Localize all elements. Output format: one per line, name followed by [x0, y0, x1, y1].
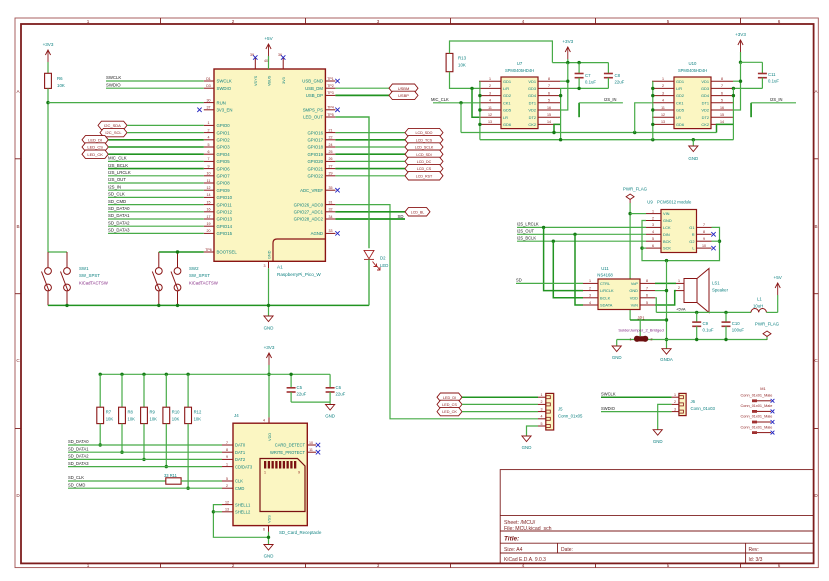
svg-text:11: 11: [488, 106, 492, 110]
MCU left pins: [204, 77, 238, 255]
svg-text:GD3: GD3: [701, 86, 709, 91]
wire: [472, 88, 479, 117]
capacitor C10: [725, 312, 727, 322]
wire: [335, 87, 389, 89]
svg-text:5: 5: [721, 99, 723, 103]
wire: [108, 211, 204, 213]
svg-text:GND: GND: [264, 554, 274, 559]
wire: [630, 213, 646, 215]
resistor R10: [165, 374, 167, 407]
junction: [651, 94, 654, 97]
svg-text:Conn_01x01_Male: Conn_01x01_Male: [741, 425, 773, 429]
svg-text:GND: GND: [522, 445, 532, 450]
svg-text:GPIO2: GPIO2: [217, 138, 231, 143]
svg-text:6: 6: [778, 19, 781, 24]
svg-text:USB_DP: USB_DP: [306, 93, 323, 98]
svg-text:1: 1: [589, 279, 591, 283]
svg-text:GD1: GD1: [503, 79, 511, 84]
svg-text:LCD_CS: LCD_CS: [417, 167, 432, 171]
svg-text:I2S_LRCLK: I2S_LRCLK: [108, 170, 131, 175]
svg-text:4: 4: [589, 301, 591, 305]
power +3V3 mic1: [565, 47, 570, 59]
capacitor C5: [290, 374, 292, 388]
svg-text:SD_DATA0: SD_DATA0: [68, 439, 89, 444]
svg-text:3: 3: [489, 91, 491, 95]
junction: [665, 318, 668, 321]
junction: [176, 250, 179, 253]
svg-text:1: 1: [87, 19, 90, 24]
svg-text:GPIO18: GPIO18: [307, 145, 323, 150]
svg-text:1: 1: [87, 563, 90, 568]
wire MCU ground: [268, 268, 270, 316]
svg-text:Title:: Title:: [504, 536, 519, 543]
svg-text:SD_CLK: SD_CLK: [68, 475, 84, 480]
wire: [47, 88, 49, 252]
svg-text:GPIO26_ADC0: GPIO26_ADC0: [294, 202, 324, 207]
svg-text:C9: C9: [703, 321, 709, 326]
wire shell ground: [213, 505, 268, 538]
svg-text:GPIO16: GPIO16: [307, 130, 323, 135]
svg-text:10: 10: [702, 244, 706, 248]
svg-text:2: 2: [678, 286, 680, 290]
svg-text:Id: 3/3: Id: 3/3: [749, 557, 763, 563]
svg-text:8: 8: [721, 77, 723, 81]
MCU bottom pin GND: [268, 261, 270, 268]
hier label LCD_SDI: [405, 150, 443, 158]
svg-text:L/RCLK: L/RCLK: [600, 288, 614, 293]
junction: [212, 510, 215, 513]
solder jumper JP1: [634, 336, 648, 342]
hier label LCD_CS: [405, 164, 443, 172]
svg-text:LCD_TCS: LCD_TCS: [416, 138, 433, 142]
svg-text:GD6: GD6: [676, 122, 684, 127]
svg-text:SD_DATA3: SD_DATA3: [108, 228, 130, 233]
svg-text:GPIO4: GPIO4: [217, 152, 231, 157]
svg-text:11: 11: [309, 448, 313, 452]
wire GPIO26 to J5 pin4: [335, 205, 538, 419]
svg-text:9: 9: [298, 471, 300, 475]
junction: [120, 451, 123, 454]
svg-text:ADC_VREF: ADC_VREF: [300, 188, 323, 193]
svg-text:2: 2: [232, 19, 235, 24]
svg-text:PCM5012 module: PCM5012 module: [657, 200, 692, 205]
svg-text:2: 2: [651, 338, 653, 342]
svg-text:C11: C11: [768, 72, 776, 77]
svg-text:GND: GND: [629, 288, 638, 293]
svg-text:LED_CS: LED_CS: [87, 145, 103, 150]
switch SW1: [42, 252, 71, 305]
wire: [335, 175, 405, 177]
svg-text:DIN: DIN: [663, 232, 670, 237]
svg-text:0.1uF: 0.1uF: [768, 79, 779, 84]
svg-text:DAT1: DAT1: [235, 450, 246, 455]
svg-text:1: 1: [208, 121, 210, 125]
wire MIC_CLK drop: [460, 103, 462, 133]
svg-text:9: 9: [208, 164, 210, 168]
svg-text:12: 12: [207, 186, 211, 190]
junction: [165, 373, 168, 376]
svg-text:J5: J5: [558, 407, 563, 412]
svg-text:C10: C10: [732, 321, 740, 326]
svg-text:6: 6: [263, 528, 265, 532]
wire mic ground bus: [480, 139, 734, 141]
svg-text:VD1: VD1: [528, 79, 536, 84]
wire: [601, 396, 672, 398]
no-connect male pin: [771, 431, 775, 435]
wire LRCLK drop: [544, 227, 583, 290]
svg-text:Conn_01x01_Male: Conn_01x01_Male: [741, 394, 773, 398]
svg-text:LR: LR: [676, 115, 681, 120]
svg-text:2: 2: [674, 400, 676, 404]
connector J4 SD_Card_Receptacle: [233, 423, 307, 525]
wire: [108, 153, 204, 155]
svg-text:GD2: GD2: [676, 93, 684, 98]
wire DT tie U10: [750, 103, 752, 117]
wire VoN to speaker: [655, 291, 676, 305]
wire: [335, 160, 405, 162]
svg-text:22uF: 22uF: [336, 392, 346, 397]
svg-text:17: 17: [207, 215, 211, 219]
junction: [542, 226, 545, 229]
wire ground rail under switches: [48, 304, 369, 306]
wire: [335, 139, 405, 141]
svg-text:CK2: CK2: [701, 122, 709, 127]
wire GNDA vertical: [666, 261, 668, 349]
svg-text:GPIO15: GPIO15: [217, 231, 233, 236]
svg-text:VD2: VD2: [701, 108, 709, 113]
wire GD3 GD4 ground drop: [560, 88, 562, 139]
svg-text:26: 26: [329, 157, 333, 161]
svg-text:PWR_FLAG: PWR_FLAG: [623, 187, 648, 192]
wire: [108, 189, 204, 191]
svg-text:KiCadTACTSW: KiCadTACTSW: [79, 280, 108, 285]
hier label LCD_BL: [405, 208, 430, 216]
no-connect 3V3: [281, 55, 285, 59]
no-connect 3V3_EN: [197, 108, 201, 112]
junction: [577, 87, 580, 90]
wire: [268, 56, 270, 69]
svg-text:LCD_DC: LCD_DC: [417, 160, 432, 164]
svg-text:32: 32: [329, 208, 333, 212]
svg-text:8: 8: [703, 230, 705, 234]
MCU A1 RaspberryPi_Pico_W: [214, 69, 325, 261]
no-connect AGND: [335, 231, 339, 235]
svg-text:LCD_SDO: LCD_SDO: [416, 131, 433, 135]
SD card drawing: [260, 459, 305, 512]
svg-text:SDATA: SDATA: [600, 303, 613, 308]
svg-text:13: 13: [661, 120, 665, 124]
wire GD3 GD4 ground drop U10: [732, 88, 734, 139]
svg-text:21: 21: [329, 128, 333, 132]
svg-text:4: 4: [208, 136, 210, 140]
wire: [108, 204, 204, 206]
svg-text:Conn_01x03: Conn_01x03: [691, 406, 716, 411]
wire CK1 U10: [635, 103, 652, 133]
wire: [181, 480, 222, 482]
wire: [462, 411, 538, 413]
wire: [48, 102, 204, 104]
svg-text:SWDIO: SWDIO: [217, 86, 232, 91]
junction: [566, 80, 569, 83]
svg-text:L/R: L/R: [676, 86, 682, 91]
svg-text:1: 1: [630, 338, 632, 342]
wire: [108, 218, 204, 220]
wire: [567, 59, 569, 63]
svg-text:16: 16: [547, 106, 551, 110]
junction: [478, 123, 481, 126]
svg-text:+5VA: +5VA: [676, 307, 686, 312]
svg-text:5: 5: [667, 19, 670, 24]
svg-text:SHELL2: SHELL2: [235, 510, 251, 515]
svg-text:Date:: Date:: [561, 547, 573, 553]
wire: [108, 139, 204, 141]
svg-text:8: 8: [226, 448, 228, 452]
svg-text:I2S_IN: I2S_IN: [108, 184, 121, 189]
svg-text:D1: D1: [206, 77, 211, 81]
wire: [213, 511, 222, 513]
MCU top pins VSYS VBUS 3V3: [250, 53, 286, 86]
wire: [68, 480, 166, 482]
svg-text:0.1uF: 0.1uF: [585, 80, 596, 85]
wire: [517, 226, 646, 228]
MCU right pins: [294, 77, 336, 236]
wire cap ground row: [560, 87, 608, 89]
svg-text:I2S_BCLK: I2S_BCLK: [517, 235, 536, 240]
svg-text:C7: C7: [585, 73, 591, 78]
svg-text:JP1: JP1: [637, 316, 645, 321]
svg-text:LED_DI: LED_DI: [88, 137, 102, 142]
wire: [733, 87, 762, 89]
svg-text:I2S_IN: I2S_IN: [770, 97, 783, 102]
svg-text:4: 4: [662, 99, 664, 103]
svg-text:4: 4: [541, 415, 543, 419]
svg-text:L1: L1: [757, 297, 762, 302]
svg-text:10K: 10K: [172, 417, 180, 422]
svg-text:B: B: [16, 224, 19, 229]
svg-text:SW_SPST: SW_SPST: [189, 273, 210, 278]
junction: [695, 311, 698, 314]
svg-text:5: 5: [226, 477, 228, 481]
capacitor C11: [761, 62, 763, 73]
svg-text:40: 40: [264, 59, 268, 63]
hier label LCD_DC: [405, 157, 443, 165]
wire: [108, 168, 204, 170]
svg-text:GPIO8: GPIO8: [217, 181, 231, 186]
switch SW2: [152, 252, 181, 305]
junction: [651, 108, 654, 111]
svg-text:34: 34: [329, 215, 333, 219]
svg-text:A1: A1: [277, 264, 283, 269]
capacitor C6: [329, 374, 331, 388]
wire DT1 DT2 tie: [578, 103, 580, 117]
wire: [629, 203, 631, 320]
svg-text:Conn_01x05: Conn_01x05: [558, 414, 583, 419]
svg-text:3: 3: [541, 407, 543, 411]
junction: [478, 94, 481, 97]
junction: [739, 80, 742, 83]
wire: [108, 225, 204, 227]
svg-text:C6: C6: [336, 385, 342, 390]
svg-text:22uF: 22uF: [297, 392, 307, 397]
svg-text:LR: LR: [503, 115, 508, 120]
wire: [68, 458, 222, 460]
wire: [268, 365, 270, 417]
ground audio: [616, 340, 618, 347]
junction: [695, 338, 698, 341]
wire: [335, 146, 405, 148]
resistor R11: [166, 478, 181, 484]
svg-text:VBUS: VBUS: [267, 75, 271, 86]
svg-text:33 R11: 33 R11: [164, 473, 178, 478]
no-connect VSYS: [253, 55, 257, 59]
svg-text:3: 3: [264, 264, 266, 268]
svg-text:SolderJumper_2_Bridged: SolderJumper_2_Bridged: [618, 327, 663, 332]
wire pullup rail: [100, 373, 330, 375]
wire VD1 VD2 supply U10: [733, 62, 741, 110]
wire VD1 VD2 supply: [560, 63, 568, 110]
svg-text:TP3: TP3: [327, 91, 334, 95]
wire: [766, 311, 777, 313]
wire: [740, 52, 742, 62]
svg-text:GND: GND: [612, 355, 622, 360]
svg-text:6: 6: [646, 294, 648, 298]
svg-text:USB_GND: USB_GND: [302, 79, 323, 84]
junction: [651, 123, 654, 126]
svg-text:1: 1: [674, 393, 676, 397]
svg-text:GNDA: GNDA: [660, 357, 673, 362]
no-connect male pin: [771, 410, 775, 414]
svg-text:3V3: 3V3: [282, 77, 286, 84]
svg-text:LS1: LS1: [712, 281, 720, 286]
wire CK2 drop U10: [717, 124, 734, 132]
wire mic clock bus: [461, 132, 717, 134]
ground: [264, 316, 273, 322]
svg-text:R8: R8: [128, 410, 134, 415]
capacitor C8: [607, 63, 609, 74]
wire analog ground rail: [617, 339, 767, 341]
svg-text:GPIO0: GPIO0: [217, 123, 231, 128]
junction: [46, 101, 49, 104]
LED D2: [364, 250, 380, 270]
svg-text:2: 2: [208, 128, 210, 132]
junction: [566, 61, 569, 64]
svg-text:GPIO1: GPIO1: [217, 130, 231, 135]
svg-text:SPM0405HD4H: SPM0405HD4H: [505, 68, 534, 73]
svg-text:SWCLK: SWCLK: [106, 75, 121, 80]
wire JP1 link: [630, 319, 666, 321]
junction: [65, 304, 68, 307]
svg-text:11: 11: [207, 179, 211, 183]
wire +3V3 rail U7: [552, 62, 608, 64]
wire: [335, 153, 405, 155]
wire: [108, 160, 204, 162]
svg-text:SD_CMD: SD_CMD: [108, 199, 126, 204]
wire: [517, 240, 646, 242]
svg-text:31: 31: [329, 200, 333, 204]
no-connect U9 R: [711, 232, 715, 236]
svg-text:KiCadTACTSW: KiCadTACTSW: [189, 280, 218, 285]
no-connect male pin: [771, 420, 775, 424]
svg-text:4: 4: [522, 19, 525, 24]
junction: [267, 373, 270, 376]
svg-text:GPIO13: GPIO13: [217, 217, 233, 222]
svg-text:LED_DI: LED_DI: [443, 396, 456, 400]
svg-text:GPIO6: GPIO6: [217, 166, 231, 171]
svg-text:GPIO22: GPIO22: [307, 174, 323, 179]
svg-text:GPIO20: GPIO20: [307, 159, 323, 164]
junction: [577, 61, 580, 64]
ground J5: [522, 436, 531, 442]
svg-text:TP4: TP4: [327, 106, 334, 110]
junction: [267, 304, 270, 307]
svg-text:Size: A4: Size: A4: [504, 547, 523, 553]
svg-text:U7: U7: [517, 61, 523, 66]
svg-text:CARD_DETECT: CARD_DETECT: [275, 443, 306, 448]
svg-text:7: 7: [548, 84, 550, 88]
svg-text:M1: M1: [760, 386, 765, 391]
svg-text:D2: D2: [380, 256, 386, 261]
power flag PWR_FLAG 2: [763, 331, 771, 340]
svg-text:GND: GND: [653, 439, 663, 444]
svg-text:LCD_RST: LCD_RST: [416, 174, 433, 178]
svg-text:SWDIO: SWDIO: [106, 82, 121, 87]
hier label LED_CS J5: [437, 400, 462, 408]
svg-text:Sheet: /MCU/: Sheet: /MCU/: [504, 520, 536, 526]
wire: [642, 247, 646, 249]
wire: [108, 196, 204, 198]
speaker LS1: [684, 269, 709, 313]
junction: [186, 487, 189, 490]
svg-text:TP5: TP5: [327, 113, 334, 117]
svg-text:GPIO9: GPIO9: [217, 188, 231, 193]
svg-text:7: 7: [208, 157, 210, 161]
svg-text:SD_DATA3: SD_DATA3: [68, 461, 89, 466]
svg-text:LED: LED: [380, 263, 388, 268]
wire: [335, 168, 405, 170]
svg-text:10K: 10K: [458, 63, 466, 68]
capacitor C7: [578, 63, 580, 74]
svg-text:7: 7: [226, 441, 228, 445]
svg-text:U11: U11: [601, 266, 609, 271]
hier label LCD_TCS: [405, 136, 443, 144]
svg-text:25: 25: [329, 150, 333, 154]
amplifier U11 NS4168: [598, 279, 640, 310]
svg-text:3: 3: [377, 563, 380, 568]
svg-text:DAT0: DAT0: [235, 443, 246, 448]
svg-text:GPIO21: GPIO21: [307, 166, 323, 171]
svg-text:14: 14: [547, 120, 551, 124]
svg-text:MIC_CLK: MIC_CLK: [431, 97, 449, 102]
no-connect USB_GND: [335, 79, 339, 83]
svg-text:+3V3: +3V3: [43, 42, 54, 47]
svg-text:10K: 10K: [128, 417, 136, 422]
svg-text:B: B: [814, 224, 817, 229]
connector J6 Conn_01x03: [679, 393, 686, 415]
svg-text:5: 5: [208, 143, 210, 147]
svg-text:LCD_SCLK: LCD_SCLK: [415, 146, 434, 150]
no-connect ADC_VREF: [335, 188, 339, 192]
svg-text:13: 13: [488, 120, 492, 124]
svg-text:1: 1: [489, 77, 491, 81]
svg-text:16: 16: [720, 106, 724, 110]
male pin connector 2: [741, 404, 773, 413]
male pin connector 4: [741, 425, 773, 434]
power +3V3 mic2: [738, 40, 743, 52]
svg-text:R10: R10: [172, 410, 180, 415]
svg-text:37: 37: [207, 106, 211, 110]
wire BOOTSEL to SW2: [159, 251, 204, 253]
svg-text:14: 14: [207, 193, 211, 197]
